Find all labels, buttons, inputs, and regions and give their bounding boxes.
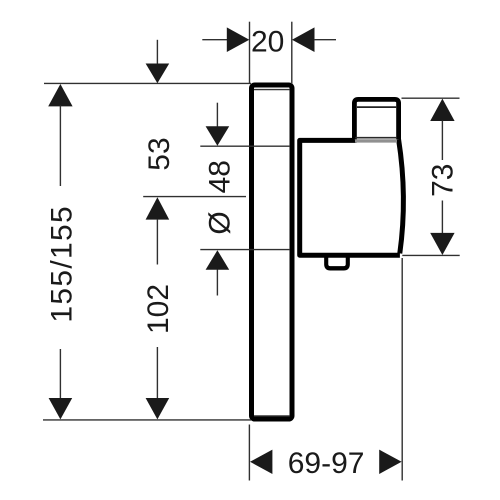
plate inner bottom edge bbox=[254, 415, 290, 417]
Ø48 top arrowhead (points down) bbox=[206, 126, 230, 146]
Ø48 bottom arrowhead (points up) bbox=[206, 250, 230, 270]
svg-text:155/155: 155/155 bbox=[45, 205, 78, 323]
Ø48 tail above bbox=[216, 103, 218, 128]
73 bottom extension line bbox=[402, 254, 459, 256]
valve body right edge (curved) bbox=[399, 140, 404, 254]
svg-text:102: 102 bbox=[142, 284, 175, 334]
73 top extension line bbox=[402, 97, 460, 99]
53 outside tail above bbox=[156, 40, 158, 65]
73 top arrowhead (points up) bbox=[430, 99, 454, 121]
69-97 left arrowhead (points left) bbox=[250, 450, 272, 474]
svg-text:69-97: 69-97 bbox=[288, 447, 365, 480]
Ø48 bottom boundary line bbox=[200, 249, 290, 251]
svg-text:73: 73 bbox=[427, 164, 460, 197]
73 top line bbox=[441, 121, 443, 161]
69-97 left extension line bbox=[248, 425, 250, 481]
20 left leader tail bbox=[202, 39, 228, 41]
53 top arrowhead (points down) bbox=[146, 64, 170, 84]
102 bottom arrowhead bbox=[146, 398, 170, 419]
extension line right of 20 bbox=[291, 22, 293, 84]
svg-text:20: 20 bbox=[251, 26, 284, 59]
Ø48 top boundary line bbox=[200, 145, 290, 147]
centre line of valve bbox=[143, 196, 246, 198]
handle inner top line bbox=[357, 106, 396, 108]
155 bottom line bbox=[59, 349, 61, 399]
155 top line bbox=[59, 106, 61, 187]
valve body outline (left, part of top, bottom) bbox=[300, 140, 400, 255]
tab white interior bbox=[328, 254, 345, 265]
73 bottom line bbox=[441, 201, 443, 234]
extension line left of 20 bbox=[249, 22, 251, 84]
20 right arrowhead bbox=[292, 27, 315, 52]
102 top line bbox=[156, 219, 158, 265]
Ø48 tail below bbox=[216, 270, 218, 296]
102 bottom line bbox=[156, 347, 158, 399]
20 right leader tail bbox=[314, 39, 336, 41]
body top edge hidden under handle (grey) bbox=[355, 139, 397, 142]
bottom extension line (plate bottom) bbox=[43, 419, 251, 421]
155 bottom arrowhead bbox=[49, 398, 73, 419]
69-97 right extension line bbox=[401, 258, 403, 481]
top extension line (plate top) bbox=[44, 82, 251, 84]
69-97 right arrowhead (points right) bbox=[379, 450, 401, 474]
plate inner top edge bbox=[254, 89, 290, 91]
svg-text:53: 53 bbox=[143, 137, 176, 170]
bottom tab (function block stop) bbox=[326, 254, 347, 269]
102 top arrowhead (points up) bbox=[146, 197, 170, 219]
handle bottom edge (thin) bbox=[355, 137, 397, 139]
svg-text:Ø 48: Ø 48 bbox=[203, 160, 236, 235]
handle (knob) body with white fill bbox=[354, 99, 398, 139]
20 left arrowhead bbox=[227, 27, 250, 52]
155 top arrowhead bbox=[48, 84, 72, 106]
wall plate (edge view, 20 thick) bbox=[252, 85, 293, 419]
73 bottom arrowhead (points down) bbox=[430, 233, 454, 255]
